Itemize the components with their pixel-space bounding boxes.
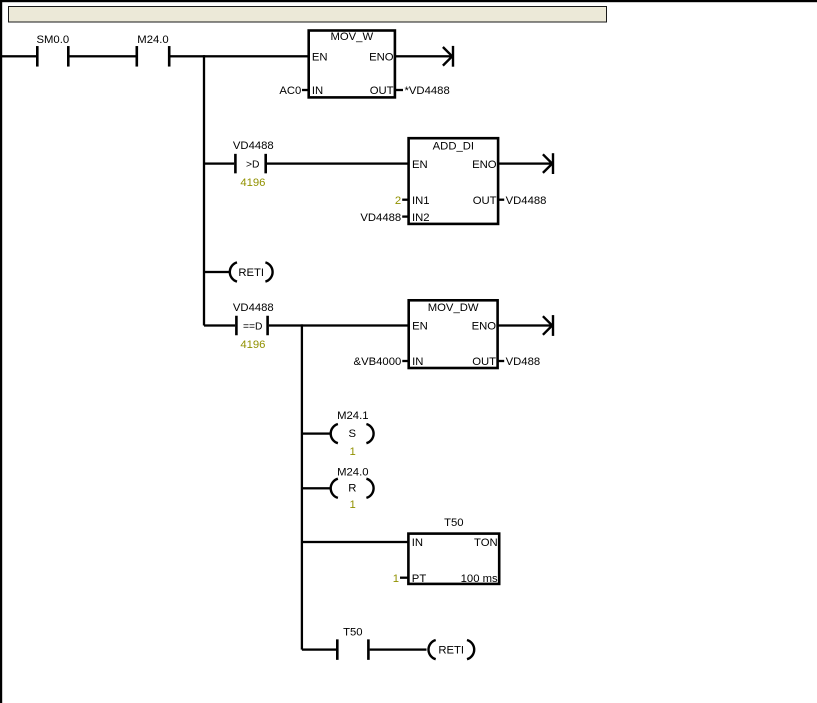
svg-text:RETI: RETI bbox=[238, 267, 264, 279]
svg-text:MOV_DW: MOV_DW bbox=[428, 302, 479, 314]
svg-text:IN2: IN2 bbox=[412, 212, 430, 224]
svg-text:M24.0: M24.0 bbox=[137, 34, 168, 46]
svg-text:SM0.0: SM0.0 bbox=[36, 34, 69, 46]
svg-text:T50: T50 bbox=[444, 517, 463, 529]
svg-text:IN: IN bbox=[412, 537, 423, 549]
svg-text:ENO: ENO bbox=[472, 321, 497, 333]
svg-text:T50: T50 bbox=[343, 627, 362, 639]
svg-text:1: 1 bbox=[350, 446, 356, 458]
svg-text:*VD4488: *VD4488 bbox=[405, 85, 450, 97]
svg-text:ENO: ENO bbox=[369, 52, 394, 64]
svg-text:ADD_DI: ADD_DI bbox=[433, 141, 474, 153]
svg-text:OUT: OUT bbox=[472, 356, 496, 368]
svg-text:1: 1 bbox=[393, 573, 399, 585]
svg-text:AC0: AC0 bbox=[279, 85, 301, 97]
svg-text:1: 1 bbox=[350, 499, 356, 511]
svg-text:OUT: OUT bbox=[370, 85, 394, 97]
svg-text:EN: EN bbox=[412, 159, 428, 171]
svg-text:IN1: IN1 bbox=[412, 195, 430, 207]
svg-text:TON: TON bbox=[474, 537, 498, 549]
svg-text:IN: IN bbox=[312, 85, 323, 97]
svg-text:VD488: VD488 bbox=[506, 356, 541, 368]
svg-text:S: S bbox=[349, 428, 357, 440]
svg-text:>D: >D bbox=[246, 160, 259, 171]
svg-text:VD4488: VD4488 bbox=[360, 212, 401, 224]
svg-text:==D: ==D bbox=[243, 322, 262, 333]
svg-text:MOV_W: MOV_W bbox=[330, 31, 373, 43]
svg-text:2: 2 bbox=[395, 195, 401, 207]
svg-text:R: R bbox=[348, 483, 356, 495]
svg-text:M24.0: M24.0 bbox=[337, 466, 368, 478]
svg-text:IN: IN bbox=[412, 356, 423, 368]
svg-text:M24.1: M24.1 bbox=[337, 410, 368, 422]
svg-text:EN: EN bbox=[412, 321, 428, 333]
svg-text:PT: PT bbox=[412, 573, 427, 585]
svg-text:4196: 4196 bbox=[240, 339, 265, 351]
svg-text:VD4488: VD4488 bbox=[506, 195, 547, 207]
svg-text:EN: EN bbox=[312, 52, 328, 64]
svg-text:VD4488: VD4488 bbox=[233, 140, 274, 152]
svg-text:VD4488: VD4488 bbox=[233, 302, 274, 314]
svg-text:OUT: OUT bbox=[473, 195, 497, 207]
svg-text:4196: 4196 bbox=[240, 177, 265, 189]
svg-text:&VB4000: &VB4000 bbox=[354, 356, 402, 368]
svg-text:ENO: ENO bbox=[472, 159, 497, 171]
svg-text:RETI: RETI bbox=[438, 645, 464, 657]
svg-text:100 ms: 100 ms bbox=[461, 573, 498, 585]
